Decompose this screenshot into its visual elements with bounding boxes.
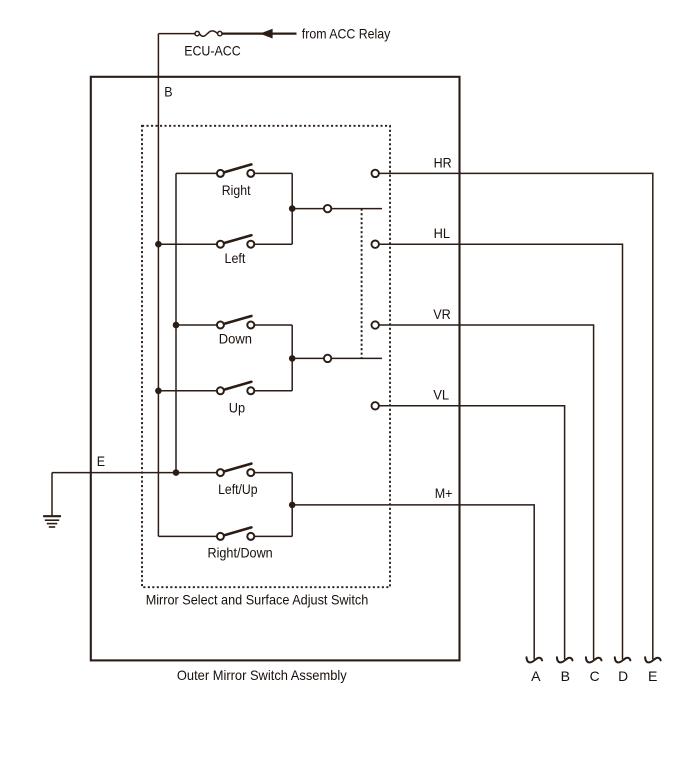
wire HL to terminal D <box>379 244 623 659</box>
switch Left <box>217 235 254 248</box>
wire right bracket of Down/Up pair <box>291 325 293 391</box>
switch Down <box>217 316 254 329</box>
junction VR/VL common <box>289 355 296 362</box>
wire E row (ground to Left/Up switch) <box>52 472 292 474</box>
wire Right/Down row <box>158 535 292 537</box>
junction bracket to Down row <box>173 322 180 329</box>
wire stub HR/HL wiper <box>292 208 382 210</box>
dashed mechanical link between wipers <box>361 209 363 359</box>
svg-text:Left/Up: Left/Up <box>218 481 258 497</box>
wire right bracket of Right/Left pair <box>291 173 293 244</box>
terminal circle VL <box>372 402 379 409</box>
wire Up row <box>158 390 292 392</box>
switch Right/Down <box>217 527 254 540</box>
svg-text:Right: Right <box>222 182 251 198</box>
svg-text:HL: HL <box>434 225 451 241</box>
svg-text:Left: Left <box>225 250 246 266</box>
svg-text:from ACC Relay: from ACC Relay <box>302 26 391 42</box>
svg-text:C: C <box>590 668 600 684</box>
svg-text:Mirror Select and Surface Adju: Mirror Select and Surface Adjust Switch <box>146 592 369 608</box>
wire left bracket (Right row down to E row) <box>175 173 177 472</box>
wire Right row <box>176 172 292 174</box>
connector terminal B <box>557 657 573 662</box>
junction bracket to E row <box>173 469 180 476</box>
wire M+ to terminal A <box>292 505 534 660</box>
wire B (vertical from fuse down to Right/Down row) <box>157 34 159 537</box>
svg-text:B: B <box>561 668 570 684</box>
ground symbol <box>43 516 61 527</box>
svg-text:E: E <box>97 453 105 469</box>
wire from fuse to ACC relay (thick) <box>222 32 296 34</box>
connector terminal A <box>527 657 543 662</box>
junction HR/HL common <box>289 205 296 212</box>
switch Left/Up <box>217 464 254 477</box>
junction B to Up row <box>155 388 162 395</box>
connector terminal C <box>586 657 602 662</box>
terminal circle HR <box>372 170 379 177</box>
arrow from ACC Relay <box>260 29 273 39</box>
junction B to Left row <box>155 241 162 248</box>
svg-text:Outer Mirror Switch Assembly: Outer Mirror Switch Assembly <box>177 667 347 683</box>
terminal circle HL <box>372 241 379 248</box>
wire VR to terminal C <box>379 325 594 659</box>
svg-text:E: E <box>648 668 657 684</box>
svg-text:B: B <box>164 84 172 100</box>
ground wire <box>51 473 53 516</box>
switch Up <box>217 382 254 395</box>
wire ACC feed thin segment <box>158 33 195 35</box>
svg-text:Up: Up <box>229 399 245 415</box>
contact circle HR/HL wiper <box>324 205 331 212</box>
svg-text:A: A <box>531 668 541 684</box>
connector terminal E <box>645 657 661 662</box>
wire HR to terminal E <box>379 173 653 659</box>
dotted box Mirror Select and Surface Adjust Switch <box>142 126 390 587</box>
wire Down row <box>176 324 292 326</box>
svg-text:VL: VL <box>433 387 449 403</box>
svg-text:M+: M+ <box>435 485 453 501</box>
svg-text:Right/Down: Right/Down <box>208 545 273 561</box>
wire stub VR/VL wiper <box>292 357 382 359</box>
svg-text:HR: HR <box>434 155 452 171</box>
wire VL to terminal B <box>379 406 565 660</box>
fuse ECU-ACC <box>195 31 222 36</box>
svg-text:VR: VR <box>433 306 451 322</box>
junction M+ common <box>289 502 296 509</box>
outer box Outer Mirror Switch Assembly <box>91 77 460 661</box>
wire right bracket of LeftUp/RightDown pair <box>291 473 293 537</box>
wire Left row <box>158 243 292 245</box>
connector terminal D <box>615 657 631 662</box>
svg-text:D: D <box>618 668 628 684</box>
svg-text:Down: Down <box>219 331 252 347</box>
terminal circle VR <box>372 321 379 328</box>
contact circle VR/VL wiper <box>324 355 331 362</box>
switch Right <box>217 164 254 177</box>
svg-text:ECU-ACC: ECU-ACC <box>184 43 241 59</box>
